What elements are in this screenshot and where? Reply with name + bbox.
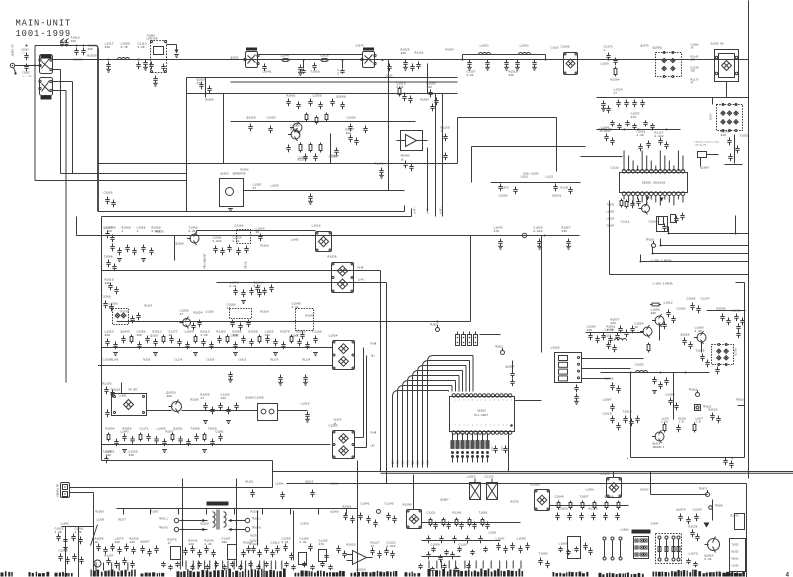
svg-text:4.7K: 4.7K [254, 285, 261, 288]
svg-text:C1593: C1593 [334, 419, 342, 422]
svg-text:CN1001 PB: CN1001 PB [57, 483, 60, 496]
svg-text:T1086: T1086 [104, 256, 113, 259]
svg-text:R1577: R1577 [119, 519, 127, 522]
svg-text:R1154: R1154 [145, 305, 153, 308]
svg-text:C1555: C1555 [207, 359, 215, 362]
svg-text:Q1021: Q1021 [174, 428, 183, 431]
svg-text:47: 47 [227, 307, 231, 310]
svg-text:R1158: R1158 [251, 511, 259, 514]
svg-text:R1536: R1536 [689, 526, 698, 529]
svg-text:C1055: C1055 [635, 364, 644, 367]
svg-text:R1576: R1576 [511, 501, 519, 504]
svg-text:L1013: L1013 [271, 185, 279, 188]
svg-text:4.7K: 4.7K [121, 46, 128, 49]
svg-text:T1026: T1026 [696, 350, 705, 353]
svg-text:4.7 25V: 4.7 25V [23, 75, 33, 78]
svg-text:0.01: 0.01 [397, 86, 404, 89]
svg-text:R1080: R1080 [74, 59, 83, 62]
svg-text:100: 100 [221, 397, 227, 400]
svg-text:R1569: R1569 [531, 484, 540, 487]
svg-text:Q1075: Q1075 [641, 45, 649, 48]
svg-text:C1029: C1029 [603, 413, 612, 416]
svg-text:L1065: L1065 [157, 428, 166, 431]
svg-text:C1042: C1042 [687, 298, 696, 301]
svg-text:33K: 33K [88, 48, 94, 51]
svg-text:L1590: L1590 [517, 538, 526, 541]
svg-text:TP10(R): TP10(R) [159, 527, 169, 530]
svg-text:R1170: R1170 [298, 159, 307, 162]
svg-text:L1510: L1510 [301, 403, 310, 406]
svg-text:C1133: C1133 [485, 476, 494, 479]
svg-text:L1554: L1554 [329, 335, 338, 338]
svg-text:L1088: L1088 [621, 529, 629, 532]
svg-text:C1115: C1115 [337, 68, 340, 75]
svg-text:C1091: C1091 [491, 446, 494, 453]
svg-text:C1589: C1589 [255, 397, 264, 400]
svg-text:L1021: L1021 [521, 176, 529, 179]
svg-text:4: 4 [786, 572, 790, 577]
svg-text:C1121: C1121 [427, 512, 436, 515]
svg-text:L1516: L1516 [312, 225, 321, 228]
svg-text:C1145: C1145 [385, 503, 394, 506]
svg-text:R1094: R1094 [106, 428, 115, 431]
svg-text:C1089: C1089 [59, 550, 68, 553]
svg-text:TP1009: TP1009 [715, 505, 724, 508]
svg-text:R1042: R1042 [641, 489, 649, 492]
svg-text:C1047: C1047 [651, 523, 659, 526]
svg-text:C1565: C1565 [489, 532, 497, 535]
svg-text:2-1901 S.MECHA: 2-1901 S.MECHA [651, 260, 673, 263]
svg-text:1: 1 [137, 230, 139, 233]
svg-text:R1130: R1130 [156, 231, 164, 234]
svg-text:100: 100 [167, 395, 173, 398]
svg-text:Q1028: Q1028 [357, 569, 366, 572]
svg-text:R1540: R1540 [306, 315, 314, 318]
svg-text:0.022: 0.022 [662, 421, 670, 424]
svg-text:Q1065: Q1065 [681, 334, 690, 337]
svg-text:33K: 33K [509, 74, 515, 77]
svg-text:SEPARATOR: SEPARATOR [233, 173, 246, 176]
svg-text:470: 470 [197, 82, 203, 85]
svg-text:47: 47 [201, 397, 205, 400]
svg-text:47: 47 [180, 313, 184, 316]
svg-text:C1111: C1111 [621, 221, 630, 224]
svg-text:R15: R15 [407, 460, 410, 465]
svg-text:1K: 1K [691, 47, 695, 50]
svg-text:(L4F): (L4F) [414, 207, 417, 215]
svg-text:R1594: R1594 [446, 49, 454, 52]
svg-text:T1039: T1039 [143, 359, 151, 362]
svg-text:1K: 1K [256, 231, 260, 234]
svg-text:L1061: L1061 [291, 335, 299, 338]
svg-text:2.2K: 2.2K [679, 421, 685, 424]
svg-text:R1542: R1542 [731, 515, 739, 518]
svg-text:R1564: R1564 [611, 79, 620, 82]
svg-text:C1147: C1147 [701, 298, 710, 301]
svg-text:R1579: R1579 [281, 331, 290, 334]
svg-text:T1055: T1055 [740, 135, 749, 138]
svg-text:10K: 10K [691, 59, 696, 62]
svg-text:L1023: L1023 [601, 473, 610, 476]
svg-text:1K: 1K [95, 541, 99, 544]
svg-text:R1034: R1034 [421, 99, 429, 102]
svg-text:Q1029: Q1029 [247, 117, 256, 120]
svg-text:0.022: 0.022 [387, 545, 396, 548]
svg-text:C1574: C1574 [356, 45, 364, 48]
svg-text:C1194: C1194 [607, 225, 615, 228]
svg-text:R1131: R1131 [561, 187, 569, 190]
svg-text:R1558: R1558 [241, 169, 249, 172]
svg-text:L1070: L1070 [689, 553, 698, 556]
svg-text:Q10: Q10 [392, 460, 395, 465]
svg-text:Q10: Q10 [412, 460, 415, 465]
svg-text:1001-1999: 1001-1999 [16, 29, 72, 39]
svg-text:MAIN-UNIT: MAIN-UNIT [16, 19, 72, 29]
svg-text:TP1021: TP1021 [495, 346, 504, 349]
svg-text:R1556: R1556 [249, 331, 258, 334]
svg-text:L1028: L1028 [551, 347, 560, 350]
svg-text:C1095: C1095 [104, 192, 113, 195]
svg-text:0.01: 0.01 [282, 541, 289, 544]
svg-text:LIMITER: LIMITER [147, 38, 158, 41]
svg-text:220: 220 [130, 541, 136, 544]
svg-text:R1029: R1029 [347, 544, 356, 547]
svg-text:C1118: C1118 [386, 75, 394, 78]
svg-text:R1512: R1512 [153, 331, 162, 334]
svg-text:Q1088: Q1088 [176, 243, 184, 246]
svg-text:R1016: R1016 [206, 99, 214, 102]
svg-text:0.01: 0.01 [291, 128, 298, 131]
svg-text:Q1098: Q1098 [337, 96, 346, 99]
svg-text:4.7K: 4.7K [607, 329, 614, 332]
svg-text:C1594: C1594 [666, 394, 675, 397]
svg-text:TP1016: TP1016 [736, 399, 745, 402]
svg-text:47: 47 [691, 82, 695, 85]
svg-text:T10: T10 [397, 460, 400, 465]
svg-text:220: 220 [721, 134, 727, 137]
svg-text:R10: R10 [427, 460, 430, 465]
svg-text:0.01: 0.01 [292, 306, 299, 309]
svg-text:L1594: L1594 [276, 483, 284, 486]
svg-text:C1188: C1188 [313, 331, 322, 334]
svg-text:L1541: L1541 [263, 71, 272, 74]
svg-text:10K: 10K [427, 86, 433, 89]
svg-text:47: 47 [253, 187, 257, 190]
svg-text:Q1021: Q1021 [231, 57, 239, 60]
svg-text:C1038: C1038 [331, 483, 339, 486]
svg-text:R1024: R1024 [194, 312, 203, 315]
svg-text:R1191: R1191 [246, 481, 254, 484]
svg-text:R1566: R1566 [244, 542, 253, 545]
svg-text:C1020: C1020 [559, 508, 568, 511]
svg-text:PJ4B: PJ4B [371, 432, 377, 435]
svg-text:C1534: C1534 [693, 509, 702, 512]
svg-text:R1170: R1170 [271, 359, 279, 362]
svg-text:T1039: T1039 [607, 204, 615, 207]
svg-text:33K: 33K [105, 46, 111, 49]
svg-text:L1121: L1121 [546, 176, 554, 179]
svg-text:TP10(R): TP10(R) [252, 527, 262, 530]
svg-text:33K: 33K [105, 282, 111, 285]
svg-text:R1571: R1571 [251, 535, 259, 538]
svg-text:L1551: L1551 [732, 310, 741, 313]
svg-text:L1550: L1550 [313, 95, 322, 98]
svg-text:Q1079: Q1079 [677, 509, 686, 512]
svg-text:T1049: T1049 [103, 451, 112, 454]
svg-text:220: 220 [189, 543, 195, 546]
svg-text:33K: 33K [129, 454, 135, 457]
svg-text:C1035: C1035 [231, 335, 239, 338]
svg-text:L1043: L1043 [121, 431, 129, 434]
svg-text:SFU455: SFU455 [401, 155, 411, 158]
svg-text:T1073: T1073 [710, 113, 713, 121]
svg-text:2.2K: 2.2K [695, 330, 702, 333]
svg-text:2-1901 S.MECHA: 2-1901 S.MECHA [653, 283, 674, 286]
svg-text:L1098: L1098 [185, 331, 194, 334]
svg-text:C1176: C1176 [175, 359, 183, 362]
svg-text:Q1088: Q1088 [701, 167, 709, 170]
svg-text:C1095: C1095 [347, 117, 356, 120]
svg-text:(B): (B) [371, 355, 376, 358]
svg-text:220: 220 [105, 334, 111, 337]
svg-text:L1042: L1042 [291, 239, 299, 242]
svg-text:R1016: R1016 [732, 558, 740, 561]
svg-text:T1059: T1059 [311, 71, 320, 74]
svg-text:10K: 10K [137, 334, 143, 337]
svg-text:33K: 33K [562, 230, 568, 233]
svg-text:Q1067: Q1067 [441, 499, 449, 502]
svg-text:C1118: C1118 [611, 167, 619, 170]
svg-text:C1166: C1166 [235, 225, 244, 228]
svg-text:C1554: C1554 [103, 359, 112, 362]
svg-text:L1052: L1052 [467, 476, 476, 479]
svg-text:2.2K: 2.2K [637, 134, 644, 137]
svg-text:0.01: 0.01 [230, 285, 237, 288]
svg-text:C1171: C1171 [140, 428, 149, 431]
svg-text:Q1031: Q1031 [553, 195, 562, 198]
svg-text:R1188: R1188 [261, 311, 269, 314]
svg-text:220: 220 [346, 132, 352, 135]
svg-text:C1539: C1539 [301, 523, 309, 526]
svg-text:L1020: L1020 [601, 63, 609, 66]
svg-text:C1593: C1593 [329, 425, 338, 428]
svg-text:L1047: L1047 [281, 55, 290, 58]
svg-text:C1015: C1015 [551, 47, 559, 50]
svg-text:T1069: T1069 [191, 428, 200, 431]
svg-text:R1179: R1179 [734, 349, 737, 357]
svg-text:4.7K: 4.7K [75, 531, 82, 534]
svg-text:C1140: C1140 [111, 359, 119, 362]
svg-text:T1057: T1057 [580, 496, 589, 499]
svg-text:100: 100 [71, 40, 77, 43]
svg-text:L1091: L1091 [119, 395, 127, 398]
svg-text:1: 1 [122, 230, 124, 233]
svg-text:0.01: 0.01 [705, 558, 712, 561]
svg-text:L1056: L1056 [61, 523, 69, 526]
svg-text:L1583: L1583 [520, 45, 529, 48]
svg-text:L1029: L1029 [607, 218, 615, 221]
svg-text:T1057: T1057 [151, 511, 159, 514]
svg-text:L1012: L1012 [664, 302, 673, 305]
svg-text:R1141: R1141 [453, 512, 462, 515]
svg-text:T1023: T1023 [623, 411, 632, 414]
svg-text:R1026: R1026 [709, 409, 718, 412]
svg-text:TP1015: TP1015 [689, 389, 698, 392]
svg-text:L1568: L1568 [559, 543, 568, 546]
svg-text:L4F: L4F [371, 445, 376, 448]
svg-text:PJ4B: PJ4B [358, 267, 364, 270]
svg-text:C1093: C1093 [501, 446, 504, 453]
svg-text:0.01: 0.01 [300, 541, 307, 544]
svg-text:(L4F): (L4F) [358, 279, 366, 282]
svg-text:Q1057: Q1057 [151, 335, 159, 338]
svg-text:C1041: C1041 [361, 503, 370, 506]
svg-text:1: 1 [441, 130, 443, 133]
svg-text:C11: C11 [422, 460, 425, 465]
svg-text:L1087: L1087 [603, 399, 612, 402]
svg-text:R1088: R1088 [331, 155, 339, 158]
svg-text:Q1083: Q1083 [331, 511, 339, 514]
svg-text:S1035 SW: S1035 SW [711, 43, 724, 46]
svg-text:Q1069: Q1069 [653, 47, 662, 50]
svg-text:1: 1 [604, 49, 606, 52]
svg-text:47: 47 [168, 542, 172, 545]
svg-text:Q1067: Q1067 [141, 541, 150, 544]
svg-text:C1185: C1185 [206, 311, 214, 314]
svg-text:L1072: L1072 [501, 187, 509, 190]
svg-text:C1013: C1013 [239, 359, 247, 362]
svg-text:4.7: 4.7 [22, 52, 27, 55]
svg-text:2SD400-3: 2SD400-3 [653, 446, 665, 449]
svg-text:TP1073: TP1073 [699, 488, 708, 491]
svg-text:R1192: R1192 [217, 331, 226, 334]
svg-text:C1563: C1563 [267, 117, 276, 120]
svg-text:R1120: R1120 [589, 508, 598, 511]
svg-text:470: 470 [494, 230, 500, 233]
svg-text:J1001 PB: J1001 PB [12, 44, 15, 57]
svg-text:R1193: R1193 [103, 383, 112, 386]
svg-text:S1002: S1002 [477, 410, 486, 413]
svg-text:TP1007: TP1007 [430, 324, 439, 327]
svg-text:Q1003: Q1003 [221, 173, 229, 176]
svg-text:L1500: L1500 [97, 519, 105, 522]
svg-text:T1028: T1028 [320, 55, 329, 58]
svg-text:C1093: C1093 [677, 308, 686, 311]
svg-text:C1535: C1535 [732, 565, 740, 568]
svg-text:FM OSC: FM OSC [129, 389, 139, 392]
svg-text:R1165: R1165 [732, 551, 740, 554]
svg-text:0.022: 0.022 [534, 230, 543, 233]
svg-text:33K: 33K [651, 312, 657, 315]
svg-text:R1590: R1590 [403, 504, 412, 507]
svg-text:R1081: R1081 [343, 506, 352, 509]
svg-text:R1540: R1540 [717, 308, 726, 311]
svg-text:2.2K: 2.2K [138, 46, 145, 49]
svg-text:1K: 1K [635, 326, 639, 329]
svg-text:R1081: R1081 [287, 95, 296, 98]
svg-text:Q1097: Q1097 [506, 366, 515, 369]
svg-text:C1089: C1089 [561, 46, 570, 49]
svg-text:220: 220 [611, 322, 617, 325]
svg-text:2.2K: 2.2K [55, 531, 62, 534]
svg-text:470: 470 [319, 543, 325, 546]
svg-text:R1036: R1036 [328, 256, 337, 259]
svg-text:T1061: T1061 [479, 512, 488, 515]
svg-text:2.2K: 2.2K [205, 543, 212, 546]
svg-text:R1181: R1181 [415, 52, 424, 55]
svg-text:L1598: L1598 [586, 489, 594, 492]
svg-text:PLL-UNIT: PLL-UNIT [475, 414, 489, 417]
svg-text:(L4F): (L4F) [427, 207, 430, 215]
svg-text:R1134: R1134 [303, 359, 311, 362]
svg-text:C1069: C1069 [499, 195, 508, 198]
svg-text:PJ4B: PJ4B [371, 343, 377, 346]
svg-text:C10: C10 [417, 460, 420, 465]
svg-text:R1077: R1077 [166, 431, 174, 434]
svg-text:L1047: L1047 [496, 538, 505, 541]
svg-text:T1063: T1063 [539, 553, 548, 556]
svg-text:0.022: 0.022 [655, 135, 664, 138]
svg-text:R1038: R1038 [88, 55, 97, 58]
svg-text:C1580: C1580 [102, 296, 111, 299]
svg-text:C1091: C1091 [216, 431, 224, 434]
svg-text:R1168: R1168 [261, 245, 269, 248]
svg-text:PB(LINE)OUT: PB(LINE)OUT [204, 253, 207, 269]
svg-text:2.2K: 2.2K [201, 334, 208, 337]
svg-text:0.022: 0.022 [213, 240, 222, 243]
svg-text:33K: 33K [115, 541, 121, 544]
svg-text:33K: 33K [401, 52, 407, 55]
svg-text:R1167: R1167 [105, 555, 114, 558]
svg-text:47: 47 [614, 92, 618, 95]
svg-text:R1571: R1571 [121, 311, 129, 314]
svg-text:TM/VOLUME: TM/VOLUME [695, 144, 708, 147]
svg-text:TP10(L): TP10(L) [252, 518, 262, 521]
svg-text:470: 470 [631, 116, 637, 119]
svg-text:C1049: C1049 [555, 496, 564, 499]
svg-text:T1055: T1055 [732, 544, 740, 547]
svg-text:L1012: L1012 [271, 542, 280, 545]
svg-text:PB EQ: PB EQ [245, 261, 248, 269]
svg-text:R1192: R1192 [375, 163, 384, 166]
svg-text:10K: 10K [222, 541, 228, 544]
svg-text:C10: C10 [402, 460, 405, 465]
svg-text:C1167: C1167 [459, 544, 468, 547]
svg-text:S1006 CXA1619: S1006 CXA1619 [642, 182, 666, 185]
svg-text:C1569: C1569 [431, 544, 440, 547]
svg-text:Q1010: Q1010 [306, 481, 314, 484]
svg-text:(L4F): (L4F) [440, 207, 443, 215]
svg-text:L1023: L1023 [480, 45, 489, 48]
svg-text:R1196: R1196 [191, 399, 199, 402]
svg-text:33K: 33K [691, 70, 696, 73]
svg-text:0.01: 0.01 [189, 230, 196, 233]
svg-text:Q1025: Q1025 [104, 227, 113, 230]
svg-text:TP1011: TP1011 [646, 239, 656, 242]
svg-text:Q1020: Q1020 [201, 523, 209, 526]
svg-text:Q1058: Q1058 [246, 397, 254, 400]
svg-text:Q1043: Q1043 [121, 331, 130, 334]
svg-text:TP10(L): TP10(L) [159, 518, 169, 521]
svg-text:47: 47 [371, 545, 375, 548]
svg-text:0.01: 0.01 [467, 74, 474, 77]
svg-text:R1590: R1590 [96, 511, 104, 514]
svg-text:L1020: L1020 [607, 211, 615, 214]
svg-text:2.2K: 2.2K [696, 421, 702, 424]
svg-text:220: 220 [587, 329, 593, 332]
